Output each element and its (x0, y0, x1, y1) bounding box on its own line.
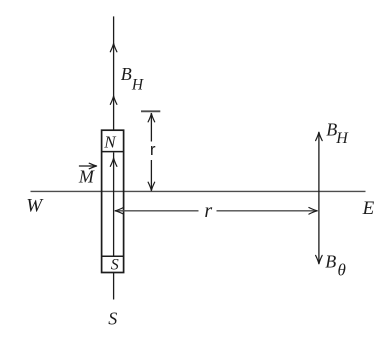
svg-text:H: H (131, 76, 144, 93)
svg-text:M: M (78, 167, 95, 187)
svg-text:S: S (108, 309, 117, 329)
svg-text:W: W (26, 195, 44, 216)
svg-text:N: N (103, 133, 117, 152)
svg-text:r: r (150, 140, 156, 159)
svg-text:H: H (335, 130, 349, 147)
svg-text:B: B (121, 64, 132, 84)
svg-text:θ: θ (338, 261, 346, 280)
svg-text:S: S (111, 257, 119, 274)
svg-text:r: r (204, 200, 212, 222)
svg-text:E: E (362, 198, 375, 219)
svg-text:B: B (325, 251, 336, 271)
